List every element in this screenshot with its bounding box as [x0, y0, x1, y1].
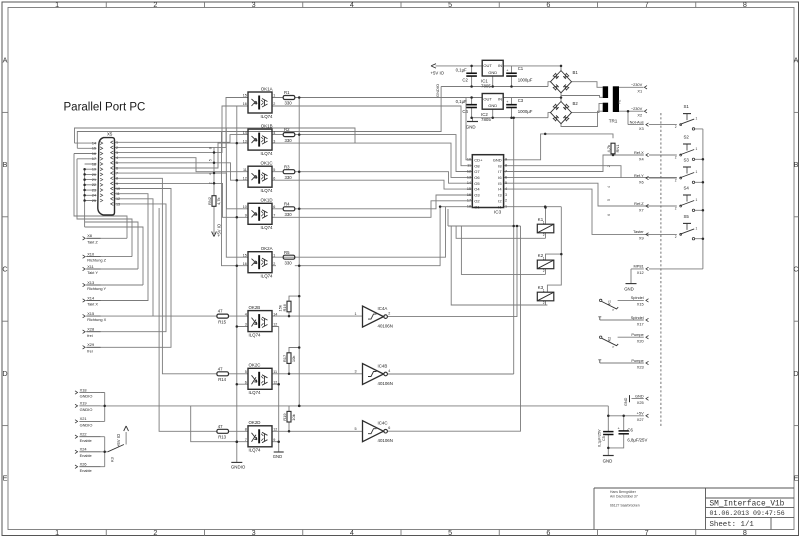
svg-text:15k: 15k	[277, 305, 282, 311]
svg-text:1: 1	[55, 0, 59, 9]
svg-text:1000µF: 1000µF	[518, 77, 533, 82]
svg-text:X15: X15	[637, 302, 644, 307]
svg-text:4: 4	[116, 156, 118, 160]
svg-text:GND: GND	[273, 454, 282, 459]
svg-text:330: 330	[285, 175, 293, 180]
svg-text:+5V IO: +5V IO	[431, 70, 445, 75]
svg-text:4,7k: 4,7k	[216, 197, 221, 205]
svg-text:X11: X11	[87, 264, 94, 269]
svg-text:2: 2	[675, 155, 677, 159]
svg-text:O7: O7	[474, 169, 480, 174]
svg-text:3: 3	[273, 139, 275, 143]
svg-text:20: 20	[92, 173, 96, 177]
svg-text:7: 7	[645, 0, 649, 9]
svg-text:IN: IN	[498, 63, 502, 68]
svg-text:0,1µF: 0,1µF	[456, 67, 467, 72]
svg-text:+5V: +5V	[637, 411, 644, 416]
svg-text:R13: R13	[218, 435, 226, 440]
svg-text:Enable: Enable	[80, 453, 92, 458]
svg-text:C2: C2	[462, 77, 468, 82]
svg-text:R17: R17	[282, 354, 287, 362]
svg-text:5: 5	[448, 0, 452, 9]
svg-text:X29: X29	[87, 342, 94, 347]
svg-text:16: 16	[92, 152, 96, 156]
svg-text:1: 1	[696, 170, 698, 174]
svg-text:7: 7	[116, 172, 118, 176]
svg-text:Am Dachstübel 37: Am Dachstübel 37	[610, 494, 638, 498]
svg-text:X17: X17	[637, 321, 644, 326]
svg-text:OK2A: OK2A	[261, 246, 273, 251]
svg-text:3: 3	[116, 151, 118, 155]
svg-text:S1: S1	[684, 104, 690, 109]
svg-text:X9: X9	[639, 236, 644, 241]
svg-text:X25: X25	[637, 400, 644, 405]
svg-text:OK2B: OK2B	[249, 305, 261, 310]
svg-text:2: 2	[675, 206, 677, 210]
svg-text:10: 10	[467, 158, 471, 162]
svg-text:5: 5	[448, 528, 452, 537]
svg-text:5: 5	[245, 370, 247, 374]
svg-text:ILQ74: ILQ74	[261, 151, 274, 156]
svg-text:Spindel: Spindel	[631, 315, 644, 320]
svg-text:15: 15	[243, 253, 247, 257]
svg-text:40106N: 40106N	[378, 438, 393, 443]
svg-text:X24: X24	[80, 447, 88, 452]
svg-text:O1: O1	[474, 204, 480, 209]
svg-text:Richtung Y: Richtung Y	[87, 286, 106, 291]
svg-text:IC4A: IC4A	[378, 306, 388, 311]
svg-text:11: 11	[243, 168, 247, 172]
svg-text:21: 21	[92, 178, 96, 182]
svg-text:5: 5	[505, 181, 507, 185]
svg-text:GND: GND	[624, 286, 634, 291]
svg-text:23: 23	[92, 188, 96, 192]
svg-text:40106N: 40106N	[378, 323, 393, 328]
svg-text:OUT: OUT	[483, 63, 492, 68]
svg-text:Sheet: 1/1: Sheet: 1/1	[710, 521, 755, 529]
svg-text:B1: B1	[573, 70, 579, 75]
svg-text:D: D	[793, 369, 798, 378]
svg-text:~230V: ~230V	[631, 106, 643, 111]
svg-text:7805: 7805	[481, 117, 491, 122]
svg-text:9: 9	[273, 438, 275, 442]
svg-text:RN2: RN2	[207, 196, 212, 205]
svg-text:01.06.2013 09:47:56: 01.06.2013 09:47:56	[710, 510, 785, 517]
svg-text:0,1µF: 0,1µF	[456, 99, 467, 104]
svg-text:Takt Z: Takt Z	[87, 239, 98, 244]
svg-text:E: E	[794, 473, 799, 482]
svg-text:~230V: ~230V	[631, 82, 643, 87]
svg-text:9: 9	[245, 214, 247, 218]
svg-text:11: 11	[116, 192, 120, 196]
svg-text:B: B	[794, 160, 799, 169]
svg-text:1: 1	[273, 94, 275, 98]
svg-text:OK1C: OK1C	[261, 161, 273, 166]
svg-text:SM_Interface_V1b: SM_Interface_V1b	[710, 500, 785, 508]
svg-text:R1: R1	[284, 90, 290, 95]
svg-text:R14: R14	[218, 377, 226, 382]
svg-text:O3: O3	[474, 193, 480, 198]
svg-text:Ref.X: Ref.X	[634, 150, 644, 155]
svg-text:Taster: Taster	[633, 229, 644, 234]
svg-text:4: 4	[505, 187, 507, 191]
svg-text:1: 1	[696, 147, 698, 151]
svg-text:47: 47	[218, 424, 223, 429]
svg-text:ILQ74: ILQ74	[249, 390, 262, 395]
svg-text:12: 12	[273, 380, 277, 384]
svg-text:14: 14	[92, 142, 96, 146]
svg-text:8: 8	[245, 428, 247, 432]
svg-text:IN: IN	[498, 96, 502, 101]
svg-text:16: 16	[243, 102, 247, 106]
svg-text:X7: X7	[639, 207, 644, 212]
svg-text:ILQ74: ILQ74	[249, 448, 262, 453]
svg-text:P: P	[613, 308, 615, 312]
svg-text:C: C	[2, 265, 7, 274]
svg-text:9: 9	[505, 158, 507, 162]
svg-text:9: 9	[116, 182, 118, 186]
svg-text:Takt Y: Takt Y	[87, 270, 98, 275]
svg-text:7: 7	[245, 438, 247, 442]
svg-text:17: 17	[467, 199, 471, 203]
svg-text:X20: X20	[637, 339, 645, 344]
svg-text:OK1D: OK1D	[261, 198, 273, 203]
svg-text:GNDIO: GNDIO	[80, 407, 93, 412]
svg-text:4: 4	[245, 312, 247, 316]
svg-text:15: 15	[467, 187, 471, 191]
svg-text:X8: X8	[87, 233, 92, 238]
svg-text:R19: R19	[282, 413, 287, 421]
svg-text:8: 8	[209, 147, 213, 149]
svg-text:2: 2	[505, 199, 507, 203]
svg-text:GND: GND	[603, 458, 613, 463]
svg-text:6: 6	[388, 426, 390, 430]
svg-text:S3: S3	[684, 158, 690, 163]
svg-text:4: 4	[273, 131, 275, 135]
svg-text:2: 2	[543, 269, 545, 273]
svg-text:10k: 10k	[291, 414, 296, 420]
svg-text:X19: X19	[80, 401, 87, 406]
svg-text:X1: X1	[637, 89, 642, 94]
svg-text:B: B	[3, 160, 8, 169]
svg-text:6: 6	[607, 214, 611, 216]
svg-text:12: 12	[243, 176, 247, 180]
svg-text:330: 330	[285, 138, 293, 143]
svg-text:15: 15	[243, 94, 247, 98]
svg-text:ILQ74: ILQ74	[261, 225, 274, 230]
svg-text:11: 11	[467, 164, 471, 168]
svg-text:GNDIO: GNDIO	[435, 84, 440, 97]
svg-text:GND: GND	[488, 70, 497, 75]
svg-text:1: 1	[696, 198, 698, 202]
svg-text:R3: R3	[284, 164, 290, 169]
svg-text:5: 5	[209, 159, 213, 161]
svg-text:19: 19	[92, 168, 96, 172]
svg-text:3: 3	[252, 0, 256, 9]
svg-text:4: 4	[388, 369, 390, 373]
svg-text:Richtung Z: Richtung Z	[87, 258, 106, 263]
svg-text:O8: O8	[474, 163, 480, 168]
svg-text:C3: C3	[518, 98, 524, 103]
svg-text:C: C	[793, 265, 798, 274]
svg-text:C5: C5	[602, 436, 606, 441]
svg-text:3: 3	[245, 323, 247, 327]
svg-text:RN1: RN1	[615, 144, 620, 153]
svg-text:C6: C6	[627, 427, 633, 432]
svg-text:P: P	[613, 345, 615, 349]
svg-text:1: 1	[116, 141, 118, 145]
svg-text:X27: X27	[637, 417, 644, 422]
svg-text:OK1B: OK1B	[261, 124, 273, 129]
svg-text:2: 2	[675, 125, 677, 129]
svg-text:13: 13	[243, 139, 247, 143]
svg-text:R5: R5	[284, 250, 290, 255]
svg-text:Ref.Y: Ref.Y	[634, 173, 644, 178]
svg-text:R4: R4	[284, 201, 290, 206]
svg-text:2: 2	[388, 312, 390, 316]
svg-text:4: 4	[350, 0, 354, 9]
svg-text:3: 3	[252, 528, 256, 537]
svg-text:X15: X15	[87, 311, 94, 316]
svg-text:6: 6	[273, 205, 275, 209]
svg-text:Ref.Z: Ref.Z	[634, 201, 644, 206]
svg-text:5: 5	[116, 161, 118, 165]
svg-text:C1: C1	[518, 66, 524, 71]
svg-text:S5: S5	[684, 214, 690, 219]
svg-text:8: 8	[743, 528, 747, 537]
svg-text:K2: K2	[607, 337, 611, 342]
svg-text:2: 2	[153, 528, 157, 537]
svg-text:25: 25	[92, 199, 96, 203]
svg-text:18: 18	[92, 162, 96, 166]
svg-text:4: 4	[607, 186, 611, 188]
svg-text:X3: X3	[639, 126, 644, 131]
svg-text:12: 12	[273, 323, 277, 327]
svg-text:K3: K3	[110, 456, 115, 462]
svg-text:6: 6	[546, 528, 550, 537]
svg-text:7805: 7805	[481, 84, 491, 89]
svg-text:1: 1	[696, 226, 698, 230]
svg-text:E: E	[3, 473, 8, 482]
svg-text:D: D	[2, 369, 7, 378]
svg-text:O4: O4	[474, 187, 480, 192]
svg-text:R15: R15	[218, 319, 226, 324]
svg-text:GND: GND	[635, 393, 644, 398]
svg-text:2: 2	[543, 233, 545, 237]
svg-text:X18: X18	[80, 387, 87, 392]
svg-text:11: 11	[273, 370, 277, 374]
svg-text:frei: frei	[87, 333, 93, 338]
svg-text:O6: O6	[474, 175, 480, 180]
svg-text:1: 1	[543, 289, 545, 293]
svg-text:OK2D: OK2D	[249, 420, 261, 425]
svg-text:7: 7	[505, 169, 507, 173]
svg-text:Not-Aus: Not-Aus	[630, 119, 644, 124]
svg-text:1: 1	[273, 253, 275, 257]
svg-text:6: 6	[546, 0, 550, 9]
svg-text:X12: X12	[637, 270, 644, 275]
svg-text:OUT: OUT	[483, 96, 492, 101]
svg-text:10k: 10k	[291, 356, 296, 362]
svg-text:2: 2	[675, 178, 677, 182]
svg-text:8: 8	[116, 177, 118, 181]
svg-text:X26: X26	[80, 462, 87, 467]
svg-text:A: A	[794, 56, 799, 65]
svg-text:7: 7	[645, 528, 649, 537]
svg-text:GND: GND	[466, 124, 476, 129]
svg-text:OK1A: OK1A	[261, 86, 273, 91]
svg-text:frei: frei	[87, 348, 93, 353]
svg-text:6: 6	[245, 380, 247, 384]
svg-text:3: 3	[505, 193, 507, 197]
svg-text:X23: X23	[637, 364, 644, 369]
svg-text:GND: GND	[624, 397, 628, 406]
svg-text:Pumpe: Pumpe	[631, 332, 643, 337]
svg-text:S4: S4	[684, 186, 690, 191]
svg-text:X28: X28	[87, 327, 94, 332]
svg-text:2: 2	[543, 301, 545, 305]
svg-text:S2: S2	[684, 135, 690, 140]
svg-text:4: 4	[209, 173, 213, 175]
svg-text:13: 13	[467, 175, 471, 179]
svg-text:2: 2	[273, 262, 275, 266]
svg-text:15: 15	[92, 147, 96, 151]
svg-text:Enable: Enable	[80, 438, 92, 443]
svg-text:8: 8	[505, 164, 507, 168]
svg-text:ILQ74: ILQ74	[261, 114, 274, 119]
svg-text:ILQ74: ILQ74	[261, 188, 274, 193]
svg-text:GNDIO: GNDIO	[80, 394, 93, 399]
svg-text:12: 12	[273, 428, 277, 432]
svg-text:8: 8	[743, 0, 747, 9]
svg-text:GNDIO: GNDIO	[231, 465, 246, 470]
svg-text:6: 6	[273, 176, 275, 180]
svg-text:X21: X21	[80, 416, 87, 421]
svg-text:47: 47	[218, 309, 223, 314]
svg-text:16: 16	[243, 262, 247, 266]
svg-text:6: 6	[116, 166, 118, 170]
svg-text:Richtung X: Richtung X	[87, 317, 106, 322]
svg-text:3: 3	[354, 370, 356, 374]
svg-text:66127 Saarbrücken: 66127 Saarbrücken	[610, 504, 640, 508]
svg-text:Pumpe: Pumpe	[631, 358, 643, 363]
svg-text:330: 330	[285, 260, 293, 265]
svg-text:12: 12	[467, 169, 471, 173]
svg-text:17: 17	[92, 157, 96, 161]
svg-text:ILQ74: ILQ74	[249, 332, 262, 337]
svg-text:Parallel Port PC: Parallel Port PC	[64, 102, 146, 114]
svg-text:IC3: IC3	[494, 209, 502, 214]
svg-text:5: 5	[273, 168, 275, 172]
svg-text:OK2C: OK2C	[249, 363, 261, 368]
svg-text:IC4B: IC4B	[378, 364, 388, 369]
svg-text:4,7k: 4,7k	[606, 145, 611, 153]
svg-text:B2: B2	[573, 101, 579, 106]
svg-text:K1: K1	[607, 300, 611, 305]
svg-text:R16: R16	[282, 303, 287, 311]
svg-text:X2: X2	[637, 113, 642, 118]
svg-text:+5V IO: +5V IO	[217, 223, 222, 237]
svg-text:0,1µF/25V: 0,1µF/25V	[597, 429, 601, 447]
svg-text:1: 1	[543, 221, 545, 225]
svg-text:X22: X22	[80, 432, 87, 437]
svg-text:IC4C: IC4C	[378, 421, 388, 426]
svg-text:C4: C4	[462, 109, 468, 114]
svg-text:1: 1	[696, 117, 698, 121]
svg-text:MP81: MP81	[634, 264, 644, 269]
svg-text:X6: X6	[639, 179, 644, 184]
svg-text:47: 47	[218, 366, 223, 371]
svg-text:2: 2	[607, 165, 611, 167]
svg-text:22: 22	[92, 183, 96, 187]
svg-text:A: A	[3, 56, 8, 65]
svg-text:R2: R2	[284, 127, 290, 132]
svg-text:5: 5	[354, 427, 356, 431]
svg-text:2: 2	[116, 146, 118, 150]
svg-text:TR1: TR1	[609, 119, 618, 124]
svg-text:1: 1	[543, 256, 545, 260]
svg-text:10: 10	[243, 205, 247, 209]
svg-text:PE: PE	[618, 100, 622, 104]
svg-text:7: 7	[273, 214, 275, 218]
svg-text:10: 10	[116, 187, 120, 191]
svg-text:1000µF: 1000µF	[518, 109, 533, 114]
svg-text:Spindel: Spindel	[631, 295, 644, 300]
svg-text:12: 12	[116, 197, 120, 201]
svg-text:Hans Berngräber: Hans Berngräber	[610, 490, 637, 494]
svg-text:2: 2	[273, 102, 275, 106]
svg-text:18: 18	[467, 205, 471, 209]
svg-text:16: 16	[467, 193, 471, 197]
svg-text:40106N: 40106N	[378, 381, 393, 386]
svg-text:5: 5	[607, 199, 611, 201]
svg-text:330: 330	[285, 101, 293, 106]
svg-text:O2: O2	[474, 198, 480, 203]
svg-text:O5: O5	[474, 181, 480, 186]
svg-text:ILQ74: ILQ74	[261, 274, 274, 279]
svg-text:24: 24	[92, 194, 96, 198]
svg-text:X13: X13	[87, 280, 94, 285]
svg-text:1: 1	[354, 312, 356, 316]
svg-text:330: 330	[285, 212, 293, 217]
svg-text:2: 2	[153, 0, 157, 9]
svg-text:4: 4	[350, 528, 354, 537]
svg-text:1: 1	[55, 528, 59, 537]
svg-text:1: 1	[505, 205, 507, 209]
svg-text:6,8µF/25V: 6,8µF/25V	[627, 437, 647, 442]
svg-text:2: 2	[209, 182, 213, 184]
svg-text:14: 14	[273, 312, 277, 316]
svg-text:X5: X5	[107, 131, 113, 136]
svg-text:+5V IO: +5V IO	[116, 433, 121, 447]
svg-text:6: 6	[505, 175, 507, 179]
svg-text:14: 14	[243, 131, 247, 135]
svg-text:X4: X4	[639, 156, 645, 161]
svg-text:GND: GND	[493, 157, 502, 162]
svg-text:CD+: CD+	[474, 157, 483, 162]
svg-text:Takt X: Takt X	[87, 302, 98, 307]
svg-text:14: 14	[467, 181, 471, 185]
svg-text:X14: X14	[87, 295, 95, 300]
svg-text:GNDIO: GNDIO	[80, 423, 93, 428]
svg-text:13: 13	[116, 202, 120, 206]
svg-text:GND: GND	[488, 103, 497, 108]
svg-text:X10: X10	[87, 251, 95, 256]
svg-text:Enable: Enable	[80, 468, 92, 473]
svg-text:2: 2	[675, 235, 677, 239]
